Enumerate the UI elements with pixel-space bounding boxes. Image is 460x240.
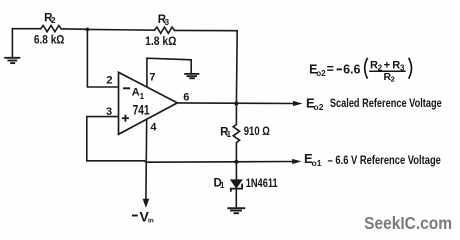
wire: top rail left segment: [12, 28, 40, 30]
svg-text:7: 7: [149, 71, 155, 83]
ground (pin 7): [185, 74, 198, 78]
wire: bottom feedback run (right of crossover): [149, 161, 237, 163]
node: Eo1 junction: [234, 160, 238, 164]
svg-text:– 6.6 V Reference Voltage: – 6.6 V Reference Voltage: [328, 153, 442, 167]
label R3: [158, 14, 170, 27]
wire: crossover hop at -Vin line: [144, 161, 149, 163]
wire: pin 7 to ground: [147, 58, 191, 86]
pin 3: [106, 106, 112, 118]
value 910 Ohm: [244, 126, 270, 138]
label -Vin: [132, 208, 154, 224]
op-amp plus input sign: [122, 115, 129, 122]
arrowhead: -Vin supply: [143, 199, 150, 208]
node Eo2 label: [306, 96, 324, 113]
svg-text:Scaled Reference Voltage: Scaled Reference Voltage: [330, 96, 442, 110]
pin 7: [149, 71, 155, 83]
svg-text:910 Ω: 910 Ω: [244, 126, 270, 138]
svg-text:+: +: [384, 59, 390, 71]
ground (below D1): [228, 208, 244, 213]
svg-text:1N4611: 1N4611: [246, 178, 278, 190]
wire: junction to R3: [87, 28, 154, 31]
pin 2: [106, 74, 112, 86]
resistor R2: [41, 26, 61, 32]
svg-text:=: =: [327, 62, 334, 76]
wire: R2 to junction: [61, 28, 87, 31]
svg-text:1: 1: [227, 130, 232, 139]
svg-text:in: in: [148, 217, 154, 224]
arrowhead: Eo2 output: [293, 101, 303, 106]
value 1N4611: [246, 178, 278, 190]
wire: junction down to pin 2: [87, 29, 118, 87]
text: -6.6 V Reference Voltage: [328, 153, 442, 167]
svg-text:A: A: [132, 87, 140, 99]
wire: R3 to top-right corner and down to output node: [174, 30, 237, 103]
wire: left ground drop: [11, 29, 13, 57]
wire: pin 4 down to -Vin: [145, 120, 148, 200]
wire: bottom feedback run (left of crossover): [87, 160, 144, 162]
label R1: [220, 126, 232, 139]
op-amp minus input sign: [123, 87, 130, 89]
wire: pin 3 input from feedback: [87, 117, 119, 161]
svg-text:4: 4: [150, 122, 157, 134]
node: output junction: [234, 101, 238, 105]
node Eo1 label: [304, 151, 322, 168]
svg-text:3: 3: [165, 18, 170, 27]
svg-text:2: 2: [106, 74, 112, 86]
resistor R3: [154, 27, 174, 33]
label D1: [214, 177, 226, 190]
svg-text:6.8 kΩ: 6.8 kΩ: [34, 35, 65, 47]
wire: output line to Eo2 arrow: [177, 102, 293, 105]
text: Scaled Reference Voltage: [330, 96, 442, 110]
resistor R1 (vertical): [233, 104, 239, 162]
svg-text:o2: o2: [316, 69, 326, 78]
watermark SeekIC.com: [364, 213, 452, 233]
svg-text:o2: o2: [314, 102, 324, 112]
equation Eo2 = -6.6 (R2+R3)/R2: [309, 58, 411, 84]
pin 4: [150, 122, 157, 134]
label R2: [44, 13, 56, 26]
svg-text:6.6: 6.6: [343, 63, 360, 77]
svg-text:2: 2: [51, 16, 56, 25]
label A1: [132, 87, 145, 102]
label 741: [133, 102, 150, 118]
node: R2/R3 junction: [86, 28, 90, 32]
op-amp U1 triangle: [119, 72, 178, 134]
diode D1 (1N4611): [231, 162, 242, 208]
svg-text:2: 2: [391, 75, 395, 84]
value 6.8 kOhm: [34, 35, 65, 47]
pin 6: [183, 91, 189, 103]
value 1.8 kOhm: [145, 36, 176, 48]
svg-text:3: 3: [106, 106, 112, 118]
svg-text:1.8 kΩ: 1.8 kΩ: [145, 36, 176, 48]
arrowhead: Eo1 output: [292, 159, 301, 164]
svg-text:SeekIC.com: SeekIC.com: [364, 213, 452, 233]
ground (left, at R2 input): [5, 58, 19, 63]
svg-text:6: 6: [183, 91, 189, 103]
svg-text:1: 1: [220, 181, 225, 190]
wire: Eo1 line to arrow: [236, 161, 293, 163]
svg-text:1: 1: [140, 92, 145, 101]
svg-text:o1: o1: [312, 158, 322, 168]
svg-text:741: 741: [133, 102, 150, 118]
